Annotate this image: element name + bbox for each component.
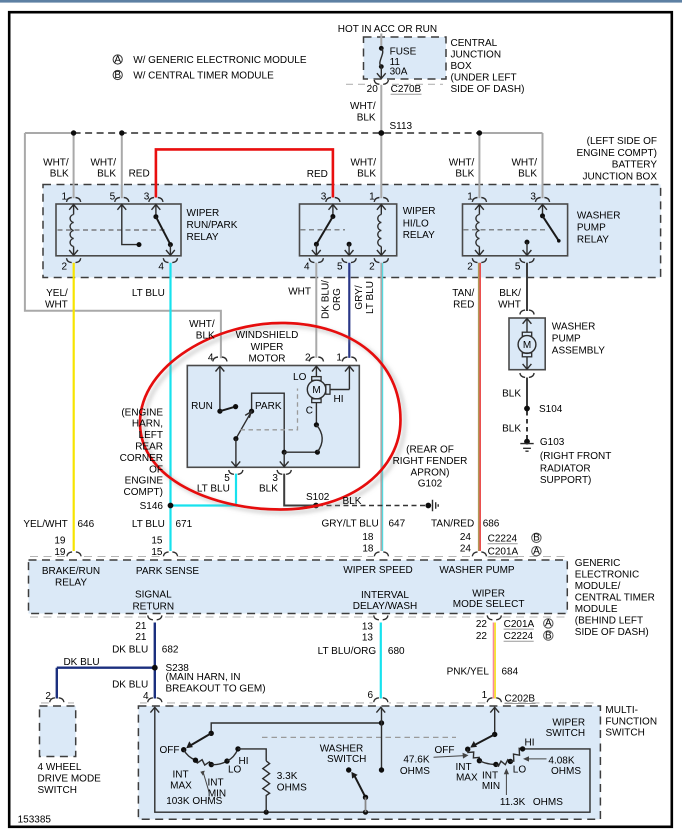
svg-text:LT BLU/ORG: LT BLU/ORG — [318, 646, 377, 657]
svg-text:LT BLU: LT BLU — [132, 519, 165, 530]
svg-text:BLK: BLK — [196, 330, 215, 341]
svg-text:WHT: WHT — [498, 299, 521, 310]
svg-text:B: B — [533, 533, 540, 544]
svg-text:682: 682 — [162, 645, 179, 656]
svg-text:22: 22 — [476, 619, 488, 630]
svg-text:ENGINE: ENGINE — [125, 476, 164, 487]
svg-text:684: 684 — [502, 666, 519, 677]
svg-text:(ENGINE: (ENGINE — [121, 407, 163, 418]
svg-text:OF: OF — [149, 464, 163, 475]
svg-text:30A: 30A — [390, 67, 408, 78]
svg-text:INTERVAL: INTERVAL — [361, 590, 409, 601]
svg-text:680: 680 — [388, 646, 405, 657]
svg-text:15: 15 — [151, 536, 163, 547]
svg-text:BATTERY: BATTERY — [612, 160, 658, 171]
svg-text:DELAY/WASH: DELAY/WASH — [353, 601, 417, 612]
svg-text:DK BLU/: DK BLU/ — [321, 280, 332, 319]
svg-text:COMPT): COMPT) — [124, 487, 163, 498]
svg-text:C202B: C202B — [505, 693, 536, 704]
svg-text:C2224: C2224 — [488, 534, 518, 545]
svg-text:19: 19 — [54, 536, 66, 547]
svg-text:47.6K: 47.6K — [403, 754, 429, 765]
svg-text:671: 671 — [176, 519, 193, 530]
svg-text:BRAKE/RUN: BRAKE/RUN — [42, 566, 100, 577]
svg-text:S104: S104 — [539, 404, 563, 415]
svg-text:PUMP: PUMP — [552, 334, 581, 345]
svg-text:3: 3 — [272, 473, 278, 484]
svg-text:M: M — [523, 340, 531, 351]
svg-text:RUN: RUN — [191, 401, 213, 412]
svg-text:18: 18 — [362, 544, 374, 555]
svg-text:S146: S146 — [140, 501, 164, 512]
svg-text:103K OHMS: 103K OHMS — [166, 796, 222, 807]
svg-text:INT: INT — [172, 770, 188, 781]
svg-text:A: A — [114, 54, 121, 65]
svg-text:RELAY: RELAY — [577, 234, 609, 245]
svg-text:BLK: BLK — [518, 169, 537, 180]
svg-text:MULTI-: MULTI- — [605, 705, 638, 716]
svg-text:CENTRAL TIMER: CENTRAL TIMER — [575, 593, 655, 604]
svg-text:6: 6 — [367, 690, 373, 701]
svg-text:13: 13 — [362, 633, 374, 644]
svg-text:CENTRAL: CENTRAL — [451, 38, 498, 49]
svg-text:3: 3 — [144, 192, 150, 203]
svg-text:YEL/: YEL/ — [46, 288, 68, 299]
svg-text:4 WHEEL: 4 WHEEL — [38, 762, 82, 773]
svg-text:W/ GENERIC ELECTRONIC MODULE: W/ GENERIC ELECTRONIC MODULE — [133, 55, 307, 66]
svg-text:WIPER: WIPER — [187, 208, 220, 219]
svg-text:G102: G102 — [418, 479, 443, 490]
svg-text:2: 2 — [467, 261, 473, 272]
svg-text:(MAIN HARN, IN: (MAIN HARN, IN — [166, 672, 241, 683]
svg-text:C2224: C2224 — [504, 631, 534, 642]
svg-text:647: 647 — [389, 518, 406, 529]
svg-text:4: 4 — [158, 261, 164, 272]
svg-text:MOTOR: MOTOR — [248, 354, 285, 365]
svg-text:FUSE: FUSE — [390, 47, 417, 58]
svg-text:3: 3 — [530, 192, 536, 203]
svg-text:G103: G103 — [540, 437, 565, 448]
svg-text:WIPER SPEED: WIPER SPEED — [343, 565, 412, 576]
svg-text:(REAR OF: (REAR OF — [406, 445, 454, 456]
svg-text:RED: RED — [453, 299, 474, 310]
svg-text:B: B — [545, 630, 552, 641]
svg-text:SIDE OF DASH): SIDE OF DASH) — [575, 627, 649, 638]
svg-text:BLK: BLK — [259, 484, 278, 495]
svg-text:WIPER: WIPER — [251, 342, 284, 353]
svg-text:5: 5 — [110, 192, 116, 203]
svg-text:YEL/WHT: YEL/WHT — [23, 519, 67, 530]
svg-text:SWITCH: SWITCH — [605, 728, 644, 739]
svg-text:RELAY: RELAY — [403, 230, 435, 241]
svg-text:RIGHT FENDER: RIGHT FENDER — [393, 456, 468, 467]
svg-text:DK BLU: DK BLU — [112, 680, 148, 691]
svg-text:RELAY: RELAY — [55, 578, 87, 589]
svg-text:OHMS: OHMS — [400, 766, 430, 777]
svg-text:4: 4 — [208, 352, 214, 363]
svg-text:153385: 153385 — [18, 814, 52, 825]
svg-text:FUNCTION: FUNCTION — [605, 716, 657, 727]
svg-text:OHMS: OHMS — [551, 766, 581, 777]
svg-text:WIPER: WIPER — [552, 717, 585, 728]
svg-text:RELAY: RELAY — [187, 232, 219, 243]
svg-text:S113: S113 — [390, 121, 413, 132]
svg-text:20: 20 — [367, 84, 379, 95]
svg-text:MODULE/: MODULE/ — [575, 581, 621, 592]
svg-text:13: 13 — [362, 621, 374, 632]
svg-text:GRY/LT BLU: GRY/LT BLU — [321, 518, 378, 529]
svg-text:INT: INT — [456, 762, 472, 773]
svg-text:LEFT: LEFT — [139, 430, 163, 441]
svg-text:WASHER: WASHER — [577, 211, 621, 222]
svg-text:3: 3 — [321, 192, 327, 203]
svg-text:BLK/: BLK/ — [499, 288, 521, 299]
svg-text:11.3K: 11.3K — [500, 797, 526, 808]
svg-text:19: 19 — [54, 547, 66, 558]
svg-text:(BEHIND LEFT: (BEHIND LEFT — [575, 616, 643, 627]
svg-text:RED: RED — [129, 169, 150, 180]
svg-text:PARK: PARK — [255, 401, 282, 412]
svg-text:BREAKOUT TO GEM): BREAKOUT TO GEM) — [166, 684, 266, 695]
svg-text:ELECTRONIC: ELECTRONIC — [575, 569, 639, 580]
svg-text:ORG: ORG — [332, 288, 343, 311]
svg-text:1: 1 — [336, 352, 342, 363]
svg-text:OHMS: OHMS — [277, 783, 307, 794]
svg-text:WHT/: WHT/ — [189, 319, 215, 330]
svg-text:BLK: BLK — [357, 169, 376, 180]
svg-text:S102: S102 — [306, 492, 330, 503]
svg-text:ENGINE COMPT): ENGINE COMPT) — [576, 148, 657, 159]
svg-text:WHT: WHT — [288, 286, 311, 297]
svg-text:WHT/: WHT/ — [511, 157, 537, 168]
svg-text:SWITCH: SWITCH — [546, 728, 585, 739]
svg-text:DRIVE MODE: DRIVE MODE — [38, 774, 102, 785]
svg-text:LT BLU: LT BLU — [365, 281, 376, 314]
svg-text:APRON): APRON) — [411, 467, 450, 478]
svg-text:DK BLU: DK BLU — [112, 645, 148, 656]
svg-text:2: 2 — [45, 691, 51, 702]
svg-text:HI: HI — [525, 737, 535, 748]
svg-text:B: B — [114, 70, 121, 81]
svg-text:4.08K: 4.08K — [548, 755, 574, 766]
svg-text:(UNDER LEFT: (UNDER LEFT — [451, 73, 517, 84]
svg-text:5: 5 — [515, 261, 521, 272]
svg-text:WASHER PUMP: WASHER PUMP — [439, 565, 515, 576]
svg-text:HI: HI — [334, 394, 344, 405]
svg-text:5: 5 — [224, 473, 230, 484]
svg-text:18: 18 — [362, 532, 374, 543]
svg-text:SWITCH: SWITCH — [38, 785, 77, 796]
svg-text:15: 15 — [151, 547, 163, 558]
svg-text:WASHER: WASHER — [552, 322, 596, 333]
svg-text:WHT/: WHT/ — [90, 157, 116, 168]
svg-text:WHT/: WHT/ — [43, 157, 69, 168]
svg-text:OFF: OFF — [435, 745, 455, 756]
svg-text:GRY/: GRY/ — [354, 285, 365, 309]
svg-text:CORNER: CORNER — [120, 453, 163, 464]
svg-text:LT BLU: LT BLU — [197, 484, 230, 495]
svg-text:RETURN: RETURN — [132, 601, 174, 612]
svg-text:SIDE OF DASH): SIDE OF DASH) — [451, 84, 525, 95]
svg-text:BLK: BLK — [502, 389, 521, 400]
svg-text:PARK SENSE: PARK SENSE — [136, 566, 199, 577]
svg-text:1: 1 — [467, 192, 473, 203]
svg-text:BLK: BLK — [357, 112, 376, 123]
svg-text:BLK: BLK — [50, 169, 69, 180]
svg-text:2: 2 — [61, 261, 67, 272]
svg-text:686: 686 — [483, 518, 500, 529]
svg-text:SIGNAL: SIGNAL — [135, 590, 172, 601]
svg-text:24: 24 — [460, 532, 472, 543]
svg-text:MAX: MAX — [170, 780, 192, 791]
svg-text:646: 646 — [78, 519, 95, 530]
svg-text:RADIATOR: RADIATOR — [540, 464, 591, 475]
svg-text:WHT/: WHT/ — [350, 157, 376, 168]
svg-text:BLK: BLK — [343, 496, 362, 507]
svg-text:21: 21 — [135, 632, 147, 643]
svg-text:JUNCTION: JUNCTION — [451, 50, 502, 61]
svg-text:4: 4 — [304, 261, 310, 272]
svg-text:5: 5 — [337, 261, 343, 272]
svg-text:C270B: C270B — [391, 84, 422, 95]
svg-text:HI: HI — [239, 756, 249, 767]
svg-text:4: 4 — [143, 691, 149, 702]
svg-text:C201A: C201A — [488, 547, 519, 558]
svg-text:LT BLU: LT BLU — [132, 288, 165, 299]
svg-text:2: 2 — [305, 352, 311, 363]
svg-text:DK BLU: DK BLU — [63, 657, 99, 668]
svg-text:MAX: MAX — [456, 772, 478, 783]
svg-text:A: A — [533, 546, 540, 557]
svg-text:WHT/: WHT/ — [350, 101, 376, 112]
svg-text:JUNCTION BOX: JUNCTION BOX — [583, 172, 658, 183]
svg-text:TAN/RED: TAN/RED — [431, 518, 474, 529]
svg-text:REAR: REAR — [135, 442, 163, 453]
svg-text:HARN,: HARN, — [132, 419, 163, 430]
svg-text:BOX: BOX — [451, 61, 472, 72]
svg-text:TAN/: TAN/ — [452, 288, 474, 299]
svg-text:(RIGHT FRONT: (RIGHT FRONT — [540, 451, 611, 462]
svg-text:A: A — [545, 618, 552, 629]
svg-text:SUPPORT): SUPPORT) — [540, 475, 592, 486]
svg-text:OFF: OFF — [160, 745, 180, 756]
svg-text:HI/LO: HI/LO — [403, 218, 429, 229]
svg-text:C: C — [306, 406, 313, 417]
svg-text:PNK/YEL: PNK/YEL — [447, 666, 490, 677]
svg-text:M: M — [312, 385, 320, 396]
svg-text:21: 21 — [135, 621, 147, 632]
svg-text:MODE SELECT: MODE SELECT — [453, 599, 525, 610]
svg-text:2: 2 — [369, 261, 375, 272]
svg-text:PUMP: PUMP — [577, 223, 606, 234]
svg-text:OHMS: OHMS — [533, 797, 563, 808]
svg-text:LO: LO — [513, 764, 527, 775]
svg-text:(LEFT SIDE OF: (LEFT SIDE OF — [587, 136, 657, 147]
svg-text:MIN: MIN — [482, 781, 500, 792]
svg-text:BLK: BLK — [455, 169, 474, 180]
svg-text:WHT/: WHT/ — [449, 157, 475, 168]
svg-text:WASHER: WASHER — [320, 744, 364, 755]
svg-text:WHT: WHT — [45, 299, 68, 310]
svg-text:22: 22 — [476, 631, 488, 642]
svg-text:W/ CENTRAL TIMER MODULE: W/ CENTRAL TIMER MODULE — [133, 71, 274, 82]
svg-text:BLK: BLK — [502, 423, 521, 434]
svg-text:24: 24 — [460, 544, 472, 555]
svg-text:1: 1 — [61, 192, 67, 203]
svg-text:RED: RED — [307, 169, 328, 180]
svg-text:1: 1 — [369, 192, 375, 203]
svg-text:LO: LO — [293, 372, 307, 383]
svg-text:ASSEMBLY: ASSEMBLY — [552, 345, 605, 356]
svg-text:1: 1 — [482, 690, 488, 701]
svg-text:SWITCH: SWITCH — [327, 754, 366, 765]
svg-text:MODULE: MODULE — [575, 604, 618, 615]
svg-text:WIPER: WIPER — [403, 206, 436, 217]
svg-text:WINDSHIELD: WINDSHIELD — [236, 330, 299, 341]
svg-text:RUN/PARK: RUN/PARK — [187, 220, 238, 231]
svg-text:BLK: BLK — [97, 169, 116, 180]
svg-text:3.3K: 3.3K — [277, 771, 298, 782]
svg-text:INT: INT — [207, 778, 223, 789]
svg-text:GENERIC: GENERIC — [575, 558, 621, 569]
svg-text:C201A: C201A — [504, 619, 535, 630]
svg-text:HOT IN ACC OR RUN: HOT IN ACC OR RUN — [338, 24, 437, 35]
